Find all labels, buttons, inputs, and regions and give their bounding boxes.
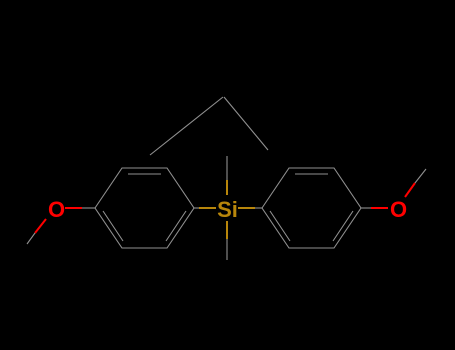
bridge bond left (toward apex CH2) bbox=[150, 97, 223, 155]
Si up methyl bond (gray half) bbox=[226, 156, 228, 180]
right ring double bond (lower-right edge) bbox=[333, 211, 353, 241]
Si down methyl bond (gray half) bbox=[226, 239, 228, 260]
svg-text:O: O bbox=[390, 197, 407, 222]
right O-methyl bond (red half) bbox=[405, 183, 415, 197]
bond left ring to Si (gray half) bbox=[194, 207, 199, 209]
right O-methyl bond (gray half) bbox=[415, 169, 426, 183]
left ring double bond (lower-right edge) bbox=[166, 211, 186, 241]
bond right ring to O (red half) bbox=[371, 207, 388, 209]
bond Si to right ring (gold half) bbox=[238, 207, 255, 209]
bridge bond right (apex CH2 down right) bbox=[224, 97, 268, 150]
left ring double bond (lower-left edge) bbox=[103, 211, 123, 241]
svg-text:Si: Si bbox=[217, 197, 238, 222]
svg-text:O: O bbox=[48, 197, 65, 222]
bond right ring to O (gray half) bbox=[361, 207, 371, 209]
left O-methyl bond (red half) bbox=[35, 219, 46, 233]
left O-methyl bond (gray half) bbox=[27, 233, 35, 244]
bond left ring to O (red half) bbox=[65, 207, 82, 209]
Si down methyl bond (gold half) bbox=[226, 221, 228, 239]
right ring double bond (top edge) bbox=[295, 173, 328, 175]
Si up methyl bond (gold half) bbox=[226, 180, 228, 195]
left ring double bond (top edge) bbox=[128, 173, 161, 175]
right ring double bond (lower-left edge) bbox=[270, 211, 290, 241]
bond left ring to Si (gold half) bbox=[199, 207, 216, 209]
right benzene ring outline bbox=[262, 168, 361, 248]
bond left ring to O (gray half) bbox=[82, 207, 95, 209]
bond Si to right ring (gray half) bbox=[255, 207, 262, 209]
left benzene ring outline bbox=[95, 168, 194, 248]
